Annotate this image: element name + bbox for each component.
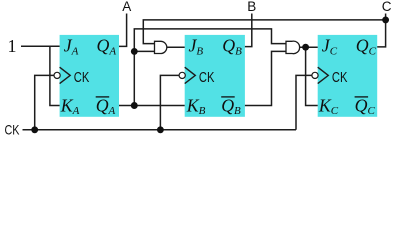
wire: QC feedback top to AND1 upper input — [143, 20, 385, 44]
wire: AND2 output to JC — [300, 46, 318, 48]
AND gate 2 (feeds JC and KC) — [286, 41, 300, 54]
junction: CK rail to FF B — [157, 126, 164, 133]
wire: QAbar vertical feedback up — [134, 29, 286, 106]
FF B clock edge triangle — [185, 67, 196, 83]
FF B clock bubble — [179, 72, 185, 78]
wire: AND2 output branch to KC — [306, 47, 318, 105]
AND gate 1 (feeds JB) — [155, 41, 167, 53]
flip-flop A box — [60, 35, 119, 117]
wire: branch to AND1 lower input — [134, 50, 154, 52]
junction: node C / QC feedback — [382, 16, 389, 23]
FF C clock edge triangle — [318, 67, 329, 83]
junction: AND1 lower input on feedback vertical — [131, 48, 138, 55]
flip-flop C box — [318, 35, 378, 117]
overline of QBbar — [221, 96, 235, 98]
FF A clock edge triangle — [60, 67, 71, 83]
wire: QBbar to AND2 lower input — [245, 51, 286, 105]
junction: QAbar wire and feedback vertical — [131, 102, 138, 109]
svg-text:CK: CK — [5, 122, 21, 138]
junction: AND2 output branch — [302, 44, 309, 51]
wire: QAbar to KB — [119, 105, 185, 107]
wire: CK riser to FF A clock — [35, 75, 54, 129]
wire: QA up to node A — [119, 14, 127, 47]
junction: CK rail to FF A — [31, 126, 38, 133]
svg-text:CK: CK — [199, 69, 215, 86]
wire: input 1 to JA — [21, 45, 60, 47]
wire: branch 1 to KA — [50, 46, 60, 105]
wire: QC to node C — [377, 14, 385, 47]
wire: CK riser to FF B clock — [160, 75, 179, 129]
wire: AND1 output to JB — [167, 46, 185, 48]
svg-text:CK: CK — [332, 69, 348, 86]
FF A clock bubble — [54, 72, 60, 78]
svg-text:A: A — [122, 0, 131, 14]
wire: CK riser to FF C clock — [296, 75, 312, 129]
svg-text:C: C — [382, 0, 392, 14]
overline of QAbar — [96, 96, 110, 98]
svg-text:1: 1 — [8, 36, 17, 56]
svg-text:B: B — [247, 0, 256, 14]
flip-flop B box — [185, 35, 245, 117]
wire: CK rail — [23, 129, 297, 131]
overline of QCbar — [355, 96, 369, 98]
wire: QB up to node B — [245, 14, 252, 47]
svg-text:CK: CK — [74, 69, 90, 86]
FF C clock bubble — [312, 72, 318, 78]
